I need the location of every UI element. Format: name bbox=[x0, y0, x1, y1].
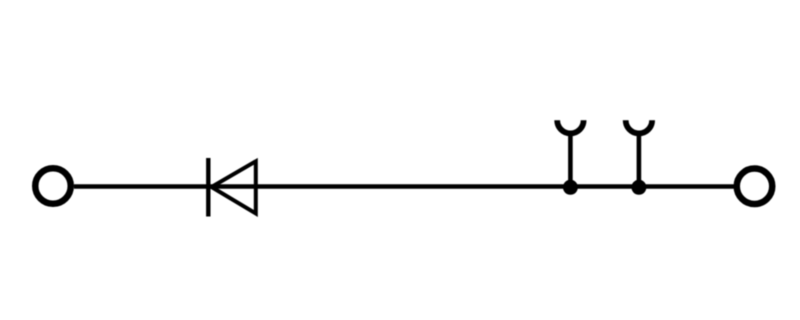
test socket cup 1 bbox=[557, 120, 583, 133]
wire bbox=[74, 184, 734, 189]
test socket stub 1 bbox=[568, 133, 573, 187]
diode D1 triangle bbox=[212, 161, 256, 213]
test socket stub 2 bbox=[637, 133, 642, 187]
test socket cup 2 bbox=[626, 120, 652, 133]
junction dot node 1 bbox=[563, 180, 578, 195]
terminal circle right bbox=[737, 169, 773, 205]
junction dot node 2 bbox=[631, 180, 646, 195]
diode D1 cathode bar bbox=[206, 158, 210, 217]
terminal circle left bbox=[35, 168, 71, 204]
